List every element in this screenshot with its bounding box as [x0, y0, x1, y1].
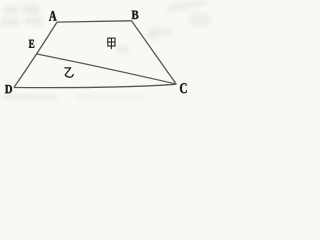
scan smudge right patch — [150, 27, 172, 36]
wire: left edge A-D — [14, 22, 57, 87]
wire: segment E-C — [36, 54, 176, 84]
scan smudge top-left row1 — [3, 6, 19, 14]
wire: top edge A-B — [57, 21, 132, 22]
node B label — [132, 11, 139, 19]
scan smudge mid faint — [116, 45, 129, 53]
node A label — [49, 11, 57, 21]
scan smudge bottom-left streak — [2, 95, 57, 99]
scan smudge top-right streak — [166, 0, 209, 13]
scan smudge top-left row2 — [0, 18, 20, 26]
region label 甲 (custom glyph) — [108, 38, 115, 49]
scan smudge top-left row2b — [24, 17, 44, 25]
wire: bottom edge D-C (slight scan sag) — [14, 84, 177, 87]
node D label — [5, 85, 12, 93]
scan smudge right of BC — [146, 31, 158, 40]
node C label — [180, 83, 187, 93]
wire: right edge B-C — [132, 21, 177, 84]
scan smudge top-left row1b — [22, 5, 40, 14]
scan smudge far right — [190, 13, 210, 26]
scan smudge bottom-mid streak — [75, 95, 145, 98]
region label 乙 (custom glyph) — [65, 68, 73, 77]
node E label — [29, 40, 34, 48]
